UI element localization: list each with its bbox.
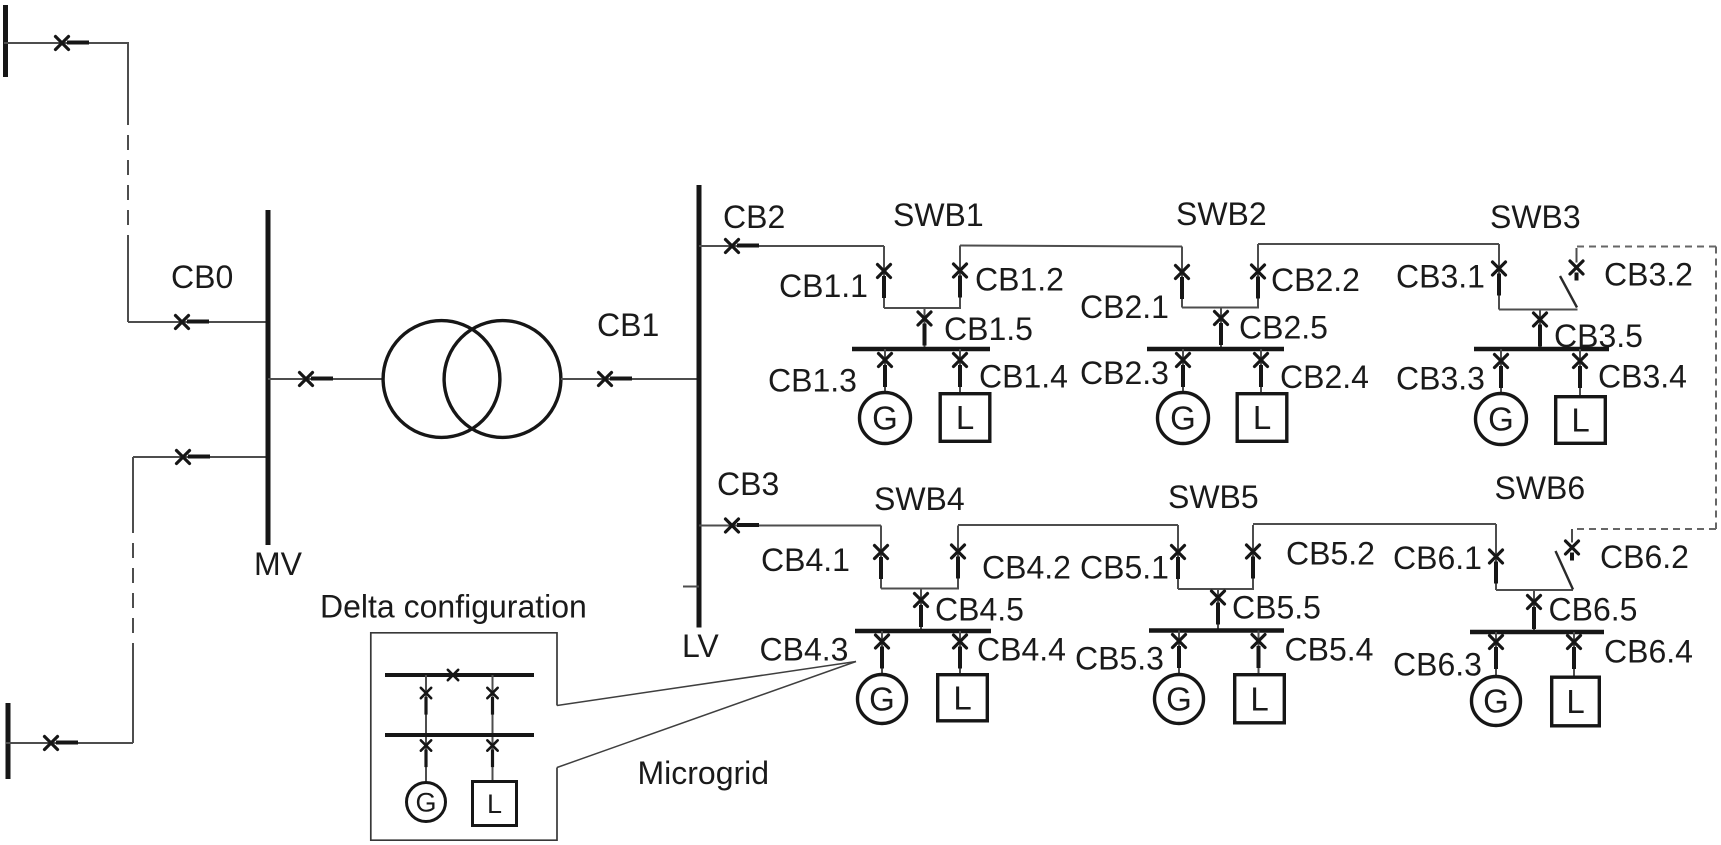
- wire: CB3.5 drop to bus: [1539, 310, 1541, 350]
- wire: feeder 1 into MV bus: [128, 321, 268, 323]
- dashed tie line: into SWB6: [1574, 528, 1716, 530]
- delta inset: bottom busbar: [385, 733, 534, 737]
- svg-text:CB2.4: CB2.4: [1280, 359, 1369, 395]
- svg-text:CB3.4: CB3.4: [1598, 359, 1687, 395]
- svg-text:MV: MV: [254, 546, 303, 582]
- wire: SWB5 to SWB6: [1253, 523, 1496, 525]
- delta inset: left upper breaker: [421, 688, 431, 715]
- circuit breaker CB6.3: [1490, 636, 1503, 670]
- delta inset: right drop wire: [492, 675, 494, 781]
- wire: SWB4 to SWB5: [958, 524, 1178, 526]
- svg-text:CB3.3: CB3.3: [1396, 361, 1485, 397]
- wire: CB4.5 drop to bus: [920, 589, 922, 632]
- delta inset: breaker on top bus: [448, 670, 475, 680]
- wire: SWB1 left branch drop: [883, 246, 885, 308]
- svg-text:CB5.1: CB5.1: [1080, 550, 1169, 586]
- delta inset: right upper breaker: [487, 688, 497, 715]
- circuit breaker CB4.4: [954, 635, 967, 669]
- delta inset: load L: [473, 782, 517, 826]
- circuit breaker CB3.1: [1493, 262, 1506, 296]
- wire: bus to load L of SWB6: [1573, 632, 1575, 676]
- svg-text:CB6.3: CB6.3: [1393, 647, 1482, 683]
- circuit breaker CB1.5: [918, 312, 931, 346]
- svg-text:SWB5: SWB5: [1168, 479, 1259, 515]
- svg-text:CB2: CB2: [723, 199, 785, 235]
- svg-text:CB1.5: CB1.5: [944, 311, 1033, 347]
- delta inset: generator G: [407, 783, 446, 822]
- circuit breaker CB3.2 (open): [1570, 261, 1583, 281]
- load L of SWB3: [1556, 397, 1606, 444]
- circuit breaker CB6.4: [1568, 636, 1581, 670]
- wire: bus to load L of SWB4: [959, 631, 961, 673]
- generator G of SWB4: [858, 675, 907, 724]
- wire: feeder 2 into MV bus: [133, 456, 268, 458]
- load L of SWB2: [1237, 394, 1287, 442]
- circuit breaker CB1.3: [879, 354, 892, 388]
- svg-text:CB1.4: CB1.4: [979, 359, 1068, 395]
- svg-text:L: L: [1566, 683, 1584, 720]
- transformer T1 (two overlapping circles): [383, 321, 561, 438]
- circuit breaker CB5.2: [1247, 545, 1260, 579]
- svg-text:SWB6: SWB6: [1495, 470, 1586, 506]
- svg-text:CB2.5: CB2.5: [1239, 310, 1328, 346]
- utility grid bar 2 (bottom left): [6, 703, 11, 779]
- wire: CB2.5 drop to bus: [1220, 308, 1222, 350]
- circuit breaker CB2.3: [1177, 354, 1190, 388]
- wire: SWB5 right branch rise: [1252, 525, 1254, 589]
- wire: bus to generator G of SWB3: [1500, 349, 1502, 393]
- wire: SWB2 left branch drop: [1181, 247, 1183, 308]
- svg-text:L: L: [1571, 402, 1589, 439]
- circuit breaker on utility feeder 1: [56, 37, 90, 50]
- svg-text:L: L: [953, 679, 971, 716]
- circuit breaker CB4.5: [915, 594, 928, 628]
- svg-text:G: G: [1170, 400, 1196, 437]
- svg-text:SWB2: SWB2: [1176, 196, 1267, 232]
- wire: SWB4 right branch rise: [957, 526, 959, 589]
- svg-text:CB4.1: CB4.1: [761, 542, 850, 578]
- circuit breaker on transformer primary: [300, 373, 334, 386]
- circuit breaker CB1.2: [954, 264, 967, 298]
- wire: CB1.5 drop to bus: [924, 308, 926, 349]
- delta inset: right lower breaker: [487, 740, 497, 767]
- svg-text:CB4.3: CB4.3: [760, 632, 849, 668]
- wire: SWB2 to SWB3: [1258, 243, 1499, 245]
- svg-text:CB6.5: CB6.5: [1549, 592, 1638, 628]
- circuit breaker CB4.3: [876, 635, 889, 669]
- wire: LV bus to SWB1: [699, 245, 884, 247]
- svg-text:CB6.2: CB6.2: [1600, 539, 1689, 575]
- svg-text:CB3.1: CB3.1: [1396, 259, 1485, 295]
- wire: SWB5 lower connector: [1178, 588, 1254, 590]
- wire: bus to load L of SWB2: [1260, 349, 1262, 392]
- MV busbar: [266, 210, 271, 545]
- tick on LV bus: [683, 586, 699, 588]
- wire: bus to load L of SWB1: [959, 349, 961, 392]
- circuit breaker CB2: [726, 240, 760, 253]
- svg-text:G: G: [1166, 681, 1192, 718]
- wire: transformer to LV bus: [561, 378, 699, 380]
- wire: LV bus to SWB4: [699, 525, 881, 527]
- svg-text:CB0: CB0: [171, 259, 233, 295]
- wire: SWB2 lower connector: [1182, 307, 1259, 309]
- circuit breaker CB5.5: [1212, 591, 1225, 625]
- svg-text:Microgrid: Microgrid: [638, 755, 770, 791]
- circuit breaker CB3.5: [1534, 313, 1547, 347]
- svg-text:SWB3: SWB3: [1490, 199, 1581, 235]
- circuit breaker CB2.5: [1215, 312, 1228, 346]
- wire: bus to generator G of SWB4: [881, 631, 883, 674]
- svg-text:CB4.2: CB4.2: [982, 550, 1071, 586]
- generator G of SWB6: [1472, 677, 1521, 726]
- circuit breaker CB3.3: [1495, 355, 1508, 389]
- wire: CB6.5 drop to bus: [1533, 590, 1535, 632]
- wire: SWB5 left branch drop: [1177, 525, 1179, 589]
- load L of SWB6: [1552, 677, 1600, 726]
- svg-text:CB6.4: CB6.4: [1604, 634, 1693, 670]
- utility grid bar 1 (top left): [3, 5, 8, 77]
- svg-text:CB5.2: CB5.2: [1286, 536, 1375, 572]
- wire: MV bus to transformer: [268, 378, 384, 380]
- busbar of SWB6: [1470, 630, 1604, 635]
- svg-text:G: G: [869, 681, 895, 718]
- svg-text:G: G: [872, 400, 898, 437]
- svg-text:CB1.2: CB1.2: [975, 262, 1064, 298]
- busbar of SWB1: [852, 347, 990, 352]
- svg-text:G: G: [1488, 401, 1514, 438]
- svg-text:LV: LV: [682, 628, 719, 664]
- svg-text:SWB1: SWB1: [893, 197, 984, 233]
- svg-text:Delta configuration: Delta configuration: [320, 589, 587, 625]
- circuit breaker CB1.1: [878, 265, 891, 299]
- wire: SWB4 lower connector: [881, 588, 959, 590]
- svg-text:G: G: [415, 788, 436, 818]
- svg-text:L: L: [956, 399, 974, 436]
- svg-text:CB5.3: CB5.3: [1075, 641, 1164, 677]
- circuit breaker CB6.1: [1490, 550, 1503, 584]
- busbar of SWB2: [1147, 347, 1284, 352]
- wire: SWB3 left branch drop: [1498, 244, 1500, 310]
- circuit breaker CB6.2 (open): [1566, 541, 1579, 561]
- open switch blade CB3.2: [1560, 276, 1577, 308]
- circuit breaker CB0: [176, 316, 210, 329]
- wire: utility 2 to corner: [6, 742, 133, 744]
- svg-text:CB1: CB1: [597, 307, 659, 343]
- wire: SWB1 to SWB2: [960, 246, 1182, 247]
- wire: bus to generator G of SWB1: [884, 349, 886, 392]
- circuit breaker CB4.1: [875, 546, 888, 580]
- circuit breaker CB5.4: [1252, 635, 1265, 669]
- circuit breaker CB1: [599, 373, 633, 386]
- svg-text:CB4.4: CB4.4: [977, 632, 1066, 668]
- svg-text:L: L: [1250, 680, 1268, 717]
- dashed tie line: SWB3 top: [1577, 246, 1716, 248]
- svg-text:L: L: [1253, 399, 1271, 436]
- wire: SWB3 lower connector: [1499, 309, 1578, 311]
- wire: vertical feeder 1 (dashed middle section): [127, 42, 129, 110]
- busbar of SWB5: [1149, 628, 1284, 633]
- circuit breaker CB6.5: [1528, 596, 1541, 630]
- delta inset: top busbar: [385, 673, 534, 677]
- LV busbar: [697, 185, 702, 628]
- busbar of SWB4: [855, 629, 991, 634]
- svg-text:CB3.2: CB3.2: [1604, 257, 1693, 293]
- svg-text:CB2.2: CB2.2: [1271, 262, 1360, 298]
- circuit breaker on utility feeder 2: [45, 737, 79, 750]
- callout line upper: [557, 662, 856, 706]
- wire: bus to generator G of SWB6: [1495, 632, 1497, 676]
- load L of SWB4: [938, 675, 988, 721]
- wire: CB5.5 drop to bus: [1217, 589, 1219, 631]
- circuit breaker CB3.4: [1574, 355, 1587, 389]
- circuit breaker CB2.1: [1176, 266, 1189, 300]
- generator G of SWB3: [1476, 394, 1527, 445]
- load L of SWB1: [940, 394, 990, 442]
- svg-text:CB4.5: CB4.5: [935, 592, 1024, 628]
- delta inset: left lower breaker: [421, 740, 431, 767]
- wire: SWB6 lower connector: [1496, 589, 1573, 591]
- open switch blade CB6.2: [1556, 551, 1574, 590]
- delta inset: left drop wire: [425, 675, 427, 783]
- wire: SWB4 left branch drop: [880, 526, 882, 589]
- svg-text:CB5.5: CB5.5: [1232, 590, 1321, 626]
- svg-text:CB6.1: CB6.1: [1393, 540, 1482, 576]
- svg-text:CB5.4: CB5.4: [1285, 632, 1374, 668]
- wire: stub from dashed tie to CB3.2: [1576, 248, 1578, 263]
- wire: utility 1 to corner: [4, 42, 128, 44]
- svg-text:CB1.3: CB1.3: [768, 363, 857, 399]
- svg-text:CB1.1: CB1.1: [779, 268, 868, 304]
- generator G of SWB1: [860, 393, 911, 444]
- wire: SWB6 left branch drop: [1495, 524, 1497, 590]
- wire: stub from dashed tie to CB6.2: [1571, 529, 1573, 543]
- circuit breaker CB2.2: [1252, 265, 1265, 299]
- svg-text:CB2.1: CB2.1: [1080, 289, 1169, 325]
- wire: bus to load L of SWB3: [1579, 349, 1581, 395]
- wire: SWB2 right branch rise: [1257, 244, 1259, 308]
- delta inset box (right edge broken for callout): [371, 633, 557, 840]
- wire: vertical feeder 2 (dashed middle section): [132, 658, 134, 743]
- wire: SWB1 lower connector: [884, 307, 961, 309]
- circuit breaker CB3: [726, 519, 760, 532]
- load L of SWB5: [1235, 675, 1285, 723]
- circuit breaker CB5.1: [1172, 546, 1185, 580]
- wire: bus to generator G of SWB5: [1178, 631, 1180, 674]
- circuit breaker CB5.3: [1173, 635, 1186, 669]
- svg-text:SWB4: SWB4: [874, 481, 965, 517]
- wire: bus to generator G of SWB2: [1182, 349, 1184, 392]
- wire: bus to load L of SWB5: [1258, 631, 1260, 674]
- circuit breaker CB1.4: [954, 354, 967, 388]
- svg-text:G: G: [1483, 683, 1509, 720]
- busbar of SWB3: [1474, 347, 1609, 352]
- callout line lower: [557, 662, 856, 768]
- svg-text:CB2.3: CB2.3: [1080, 355, 1169, 391]
- wire: SWB1 right branch rise: [959, 246, 961, 309]
- dashed tie line: right vertical: [1715, 247, 1717, 530]
- circuit breaker CB2.4: [1255, 354, 1268, 388]
- generator G of SWB2: [1158, 393, 1209, 444]
- svg-text:L: L: [487, 789, 502, 819]
- circuit breaker on feeder 2: [177, 451, 211, 464]
- svg-text:CB3: CB3: [717, 466, 779, 502]
- generator G of SWB5: [1155, 675, 1204, 724]
- circuit breaker CB4.2: [952, 545, 965, 579]
